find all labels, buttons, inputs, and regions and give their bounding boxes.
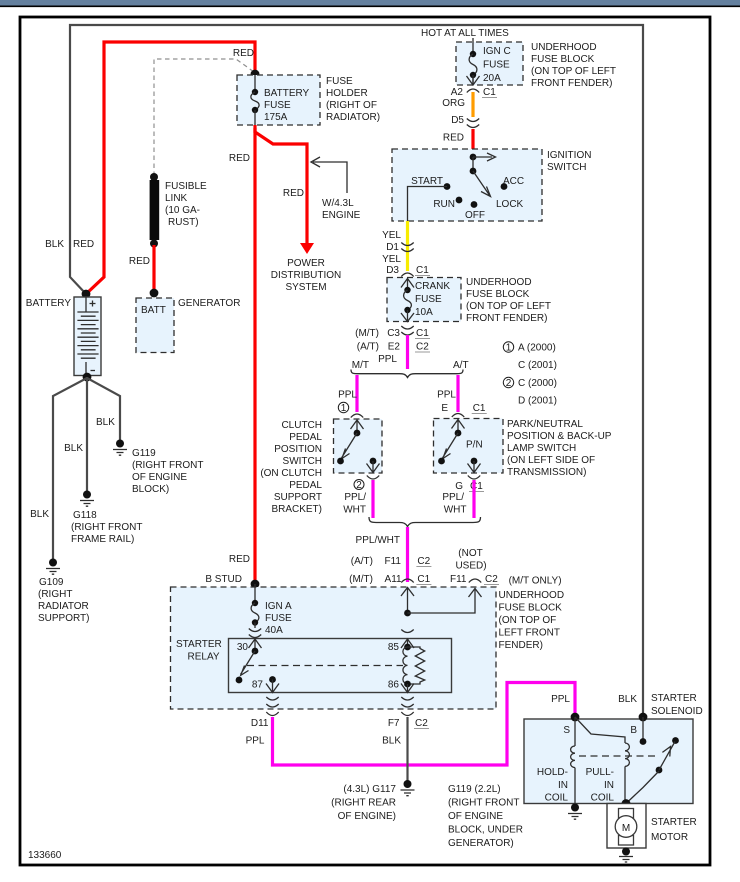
svg-text:PPL/: PPL/: [442, 492, 464, 503]
node OFF contact: [471, 201, 478, 208]
arrow to power distribution system: [300, 243, 314, 254]
fuse IGN A FUSE 40A: [251, 584, 259, 628]
wire S to pull-in coil: [575, 717, 625, 743]
svg-text:PPL: PPL: [246, 736, 265, 747]
node motor feed junction: [622, 799, 631, 808]
svg-text:B: B: [630, 725, 637, 736]
wire dashed unfused link to fuse holder: [154, 59, 254, 176]
wire PPL/WHT merged: [406, 527, 409, 582]
fuse BATTERY FUSE 175A: [251, 75, 259, 125]
svg-text:C (2000): C (2000): [518, 378, 557, 389]
ignition switch box: [392, 149, 542, 221]
svg-text:(A/T): (A/T): [351, 556, 373, 567]
svg-text:COIL: COIL: [591, 793, 615, 804]
svg-text:FUSE BLOCK: FUSE BLOCK: [466, 289, 530, 300]
svg-text:133660: 133660: [28, 850, 62, 861]
svg-text:(ON CLUTCH: (ON CLUTCH: [260, 468, 322, 479]
node generator BATT terminal: [150, 289, 159, 298]
svg-text:C1: C1: [473, 403, 486, 414]
fuse CRANK FUSE 10A: [404, 287, 412, 321]
svg-text:(RIGHT OF: (RIGHT OF: [326, 100, 377, 111]
node clutch output contact: [370, 458, 377, 465]
svg-text:PEDAL: PEDAL: [289, 480, 322, 491]
pin arrow into switch: [351, 420, 364, 433]
svg-text:BLK: BLK: [30, 509, 49, 520]
connector to pin 85: [401, 630, 413, 633]
wire PPL crank fuse to split: [406, 335, 409, 369]
svg-text:PPL/: PPL/: [344, 492, 366, 503]
svg-text:POSITION & BACK-UP: POSITION & BACK-UP: [507, 431, 612, 442]
svg-text:LAMP SWITCH: LAMP SWITCH: [507, 443, 576, 454]
svg-text:PPL: PPL: [338, 390, 357, 401]
svg-text:YEL: YEL: [382, 230, 401, 241]
svg-text:F7: F7: [388, 718, 400, 729]
connector C1 pin G: [468, 476, 480, 480]
node ACC contact: [501, 183, 508, 190]
svg-text:RED: RED: [283, 188, 304, 199]
svg-text:START: START: [411, 176, 443, 187]
svg-text:D11: D11: [251, 718, 269, 729]
wire RED branch to power distribution: [255, 128, 307, 243]
svg-text:(NOT: (NOT: [458, 548, 482, 559]
svg-text:D5: D5: [451, 115, 464, 126]
svg-text:STARTER: STARTER: [176, 639, 222, 650]
svg-text:G119: G119: [132, 448, 156, 459]
svg-text:FUSIBLE: FUSIBLE: [165, 181, 207, 192]
svg-text:FRONT FENDER): FRONT FENDER): [531, 78, 612, 89]
svg-text:FUSE: FUSE: [264, 100, 291, 111]
svg-text:DISTRIBUTION: DISTRIBUTION: [271, 270, 342, 281]
svg-text:(ON TOP OF LEFT: (ON TOP OF LEFT: [466, 301, 551, 312]
connector clutch switch input: [351, 414, 363, 418]
svg-text:30: 30: [237, 642, 249, 653]
wire PPL/WHT pn output: [472, 480, 475, 518]
svg-text:IN: IN: [558, 780, 568, 791]
wire RED to ignition switch: [471, 129, 474, 157]
svg-text:1: 1: [506, 343, 512, 354]
svg-text:RED: RED: [443, 133, 464, 144]
connector pin 87 to D11: [266, 697, 278, 707]
ground G119 (right front of engine block): [113, 440, 127, 456]
svg-text:BATT: BATT: [141, 305, 166, 316]
node solenoid S terminal: [571, 713, 580, 722]
svg-text:B STUD: B STUD: [205, 574, 242, 585]
svg-text:ORG: ORG: [442, 98, 465, 109]
note list (model years): [503, 342, 557, 407]
svg-text:OFF: OFF: [465, 210, 485, 221]
svg-text:RADIATOR: RADIATOR: [38, 601, 89, 612]
node battery fuse input: [251, 70, 260, 79]
svg-text:IGNITION: IGNITION: [547, 150, 591, 161]
svg-text:A2: A2: [451, 87, 464, 98]
svg-text:FUSE: FUSE: [415, 294, 442, 305]
svg-text:COIL: COIL: [545, 793, 569, 804]
svg-text:ENGINE: ENGINE: [322, 210, 361, 221]
svg-text:MOTOR: MOTOR: [651, 832, 688, 843]
svg-text:HOLDER: HOLDER: [326, 88, 368, 99]
relay coil resistor: [408, 647, 425, 684]
switch blade: [342, 433, 358, 459]
pin arrow out of fuse block: [467, 75, 480, 85]
fuse holder box (right of radiator): [237, 75, 320, 125]
svg-text:FUSE: FUSE: [326, 76, 353, 87]
svg-text:UNDERHOOD: UNDERHOOD: [499, 590, 565, 601]
svg-text:C2: C2: [485, 574, 498, 585]
svg-text:BLK: BLK: [96, 417, 115, 428]
svg-text:P/N: P/N: [466, 440, 483, 451]
svg-text:1: 1: [341, 403, 347, 414]
wire ORG: [471, 92, 474, 117]
svg-text:RUN: RUN: [433, 199, 455, 210]
svg-text:SWITCH: SWITCH: [283, 456, 322, 467]
svg-text:LOCK: LOCK: [496, 199, 524, 210]
svg-text:A/T: A/T: [453, 360, 469, 371]
svg-text:PARK/NEUTRAL: PARK/NEUTRAL: [507, 419, 583, 430]
svg-text:(RIGHT FRONT: (RIGHT FRONT: [71, 522, 142, 533]
svg-text:(ON TOP OF: (ON TOP OF: [499, 615, 557, 626]
arrow accessory feed: [473, 153, 496, 161]
svg-text:CRANK: CRANK: [415, 281, 450, 292]
pull-in coil: [625, 743, 629, 766]
svg-text:87: 87: [252, 680, 264, 691]
wire RED fusible link to generator: [152, 245, 155, 292]
ground G109 (right radiator support): [46, 559, 60, 575]
svg-text:E: E: [441, 403, 448, 414]
node battery negative: [83, 373, 92, 382]
ground hold-in coil: [568, 804, 582, 820]
connector pin 86 to F7: [401, 697, 413, 707]
node pn switch common: [455, 430, 462, 437]
connector fuse to relay pin 30: [249, 629, 261, 638]
svg-text:FUSE: FUSE: [483, 60, 510, 71]
svg-text:(RIGHT FRONT: (RIGHT FRONT: [448, 798, 519, 809]
hold-in coil: [571, 746, 575, 768]
node clutch switch common: [354, 430, 361, 437]
svg-text:UNDERHOOD: UNDERHOOD: [466, 277, 532, 288]
starter motor: [607, 804, 646, 849]
svg-text:STARTER: STARTER: [651, 817, 697, 828]
svg-text:IGN A: IGN A: [265, 601, 292, 612]
connector D5 (in-line): [467, 119, 479, 128]
svg-text:PPL: PPL: [437, 390, 456, 401]
starter solenoid box: [524, 719, 693, 804]
node START contact: [444, 183, 451, 190]
svg-text:175A: 175A: [264, 112, 288, 123]
wire BLK battery positive to solenoid B (top loop): [70, 25, 643, 716]
svg-text:POWER: POWER: [287, 258, 325, 269]
merge bracket: [369, 517, 481, 527]
svg-text:BLK: BLK: [618, 694, 637, 705]
svg-text:C1: C1: [416, 328, 429, 339]
svg-text:STARTER: STARTER: [651, 693, 697, 704]
svg-text:GENERATOR: GENERATOR: [178, 298, 240, 309]
svg-text:BLOCK, UNDER: BLOCK, UNDER: [448, 825, 523, 836]
svg-text:2: 2: [506, 378, 512, 389]
node clutch NC contact: [337, 458, 344, 465]
svg-text:FENDER): FENDER): [499, 640, 543, 651]
wire BLK battery negative to G118: [86, 377, 88, 491]
svg-text:FUSE BLOCK: FUSE BLOCK: [499, 603, 563, 614]
svg-text:40A: 40A: [265, 625, 283, 636]
svg-text:GENERATOR): GENERATOR): [448, 838, 514, 849]
svg-text:S: S: [563, 725, 570, 736]
svg-text:RED: RED: [229, 153, 250, 164]
svg-text:PULL-: PULL-: [586, 767, 614, 778]
node solenoid B terminal: [639, 713, 648, 722]
svg-text:F11: F11: [385, 556, 402, 567]
svg-text:(M/T): (M/T): [355, 328, 379, 339]
svg-text:FRAME RAIL): FRAME RAIL): [71, 534, 134, 545]
svg-text:WHT: WHT: [343, 505, 366, 516]
split bracket M/T - A/T: [351, 370, 463, 378]
ground G118 (right front frame rail): [80, 491, 94, 507]
svg-text:YEL: YEL: [382, 254, 401, 265]
svg-text:SUPPORT): SUPPORT): [38, 613, 90, 624]
svg-text:C2: C2: [415, 718, 428, 729]
svg-text:C1: C1: [483, 87, 496, 98]
svg-text:(ON LEFT SIDE OF: (ON LEFT SIDE OF: [507, 455, 595, 466]
svg-text:SYSTEM: SYSTEM: [285, 282, 326, 293]
svg-text:SWITCH: SWITCH: [547, 162, 586, 173]
note 2 marker: [354, 480, 364, 490]
relay blade 30-87: [241, 651, 256, 675]
wire BLK battery negative to G109: [53, 378, 87, 560]
fusible link (10 GA-RUST): [150, 180, 160, 240]
svg-text:WHT: WHT: [444, 505, 467, 516]
wire RED fuse to B STUD: [253, 125, 256, 583]
svg-text:F11: F11: [450, 574, 467, 585]
svg-text:PPL: PPL: [378, 354, 397, 365]
wire to not-used F11/C2: [408, 589, 476, 613]
svg-text:BLOCK): BLOCK): [132, 484, 169, 495]
svg-text:G118: G118: [73, 510, 97, 521]
svg-text:RADIATOR): RADIATOR): [326, 112, 380, 123]
svg-text:HOLD-: HOLD-: [537, 767, 568, 778]
svg-text:(M/T): (M/T): [349, 574, 373, 585]
svg-text:C2: C2: [416, 342, 429, 353]
ground starter motor: [619, 848, 633, 863]
underhood fuse block box (CRANK): [387, 278, 461, 322]
svg-text:POSITION: POSITION: [274, 444, 322, 455]
svg-text:RED: RED: [229, 554, 250, 565]
connector clutch switch output: [367, 476, 379, 480]
node pn NC contact: [438, 458, 445, 465]
wire B terminal stub: [642, 717, 644, 741]
svg-text:(M/T ONLY): (M/T ONLY): [509, 576, 562, 587]
svg-text:RELAY: RELAY: [188, 652, 220, 663]
fuse IGN C FUSE 20A: [469, 42, 477, 84]
svg-text:(ON TOP OF LEFT: (ON TOP OF LEFT: [531, 66, 616, 77]
svg-text:C2: C2: [417, 556, 430, 567]
solenoid contacts: [672, 737, 679, 744]
underhood fuse block box (IGN C): [456, 42, 523, 85]
svg-text:UNDERHOOD: UNDERHOOD: [531, 42, 597, 53]
connector D1 (in-line): [401, 243, 413, 252]
svg-text:RED: RED: [233, 48, 254, 59]
generator G1: [136, 298, 174, 353]
svg-text:M/T: M/T: [352, 360, 369, 371]
svg-text:C1: C1: [470, 481, 483, 492]
node relay coil feed junction: [404, 610, 411, 617]
svg-text:FRONT FENDER): FRONT FENDER): [466, 313, 547, 324]
svg-text:LEFT FRONT: LEFT FRONT: [499, 628, 560, 639]
svg-text:BATTERY: BATTERY: [26, 298, 72, 309]
underhood fuse block box (starter relay): [171, 587, 497, 709]
svg-text:85: 85: [388, 642, 400, 653]
svg-text:M: M: [622, 823, 630, 834]
svg-text:CLUTCH: CLUTCH: [281, 420, 322, 431]
svg-text:E2: E2: [388, 342, 401, 353]
svg-text:TRANSMISSION): TRANSMISSION): [507, 467, 586, 478]
svg-text:W/4.3L: W/4.3L: [322, 198, 354, 209]
wire BLK battery negative to G119: [87, 378, 120, 441]
svg-text:G109: G109: [39, 577, 64, 588]
svg-text:SOLENOID: SOLENOID: [651, 706, 703, 717]
park/neutral position switch box: [434, 419, 504, 474]
switch blade: [443, 433, 459, 459]
svg-text:BLK: BLK: [64, 443, 83, 454]
svg-text:D (2001): D (2001): [518, 396, 557, 407]
svg-text:86: 86: [388, 680, 400, 691]
svg-text:(RIGHT REAR: (RIGHT REAR: [331, 798, 396, 809]
wire PPL relay to solenoid S: [273, 683, 576, 766]
svg-text:A (2000): A (2000): [518, 343, 556, 354]
wire PPL A/T branch: [456, 375, 459, 412]
wire PPL M/T branch: [355, 375, 358, 412]
svg-text:A11: A11: [385, 574, 402, 585]
svg-text:RUST): RUST): [168, 217, 199, 228]
wire START output: [408, 187, 448, 222]
svg-text:FUSE BLOCK: FUSE BLOCK: [531, 54, 595, 65]
svg-text:(RIGHT FRONT: (RIGHT FRONT: [132, 460, 203, 471]
svg-text:SUPPORT: SUPPORT: [274, 492, 322, 503]
svg-text:BATTERY: BATTERY: [264, 88, 310, 99]
connector F11/C2 (not used): [469, 579, 481, 583]
svg-text:10A: 10A: [415, 307, 433, 318]
svg-text:BLK: BLK: [382, 736, 401, 747]
svg-text:OF ENGINE: OF ENGINE: [132, 472, 187, 483]
svg-text:RED: RED: [129, 256, 150, 267]
svg-text:C3: C3: [387, 328, 400, 339]
connector C1 crank fuse input: [401, 273, 413, 277]
svg-text:20A: 20A: [483, 73, 501, 84]
callout W/4.3L ENGINE: [311, 157, 361, 221]
wire BLK relay 86 to ground: [406, 717, 408, 781]
svg-text:BRACKET): BRACKET): [271, 504, 322, 515]
svg-text:ACC: ACC: [503, 176, 524, 187]
svg-text:IN: IN: [604, 780, 614, 791]
svg-text:PEDAL: PEDAL: [289, 432, 322, 443]
svg-text:G119 (2.2L): G119 (2.2L): [448, 784, 501, 795]
svg-text:OF ENGINE): OF ENGINE): [338, 811, 396, 822]
svg-text:C1: C1: [417, 574, 430, 585]
svg-text:BLK: BLK: [45, 239, 64, 250]
svg-text:D3: D3: [386, 265, 399, 276]
pin arrow into fuse block: [401, 279, 414, 291]
note 1 marker: [338, 402, 348, 412]
wire contact to motor junction: [627, 771, 660, 803]
svg-text:(A/T): (A/T): [357, 342, 379, 353]
connector C1/C2 crank fuse output: [401, 326, 413, 335]
clutch pedal position switch box: [334, 419, 383, 473]
ground G117/G119: [401, 780, 415, 796]
node RUN contact: [456, 197, 463, 204]
svg-text:2: 2: [356, 480, 362, 491]
svg-text:RED: RED: [73, 239, 94, 250]
svg-text:HOT AT ALL TIMES: HOT AT ALL TIMES: [421, 28, 509, 39]
switch blade to LOCK: [473, 171, 491, 197]
wire YEL ignition to D1: [406, 221, 409, 271]
svg-text:PPL: PPL: [551, 694, 570, 705]
node battery positive: [82, 290, 91, 299]
connector C1 pin A2: [467, 89, 479, 93]
svg-text:LINK: LINK: [165, 193, 188, 204]
connector A11 input: [401, 579, 413, 583]
starter relay box: [229, 639, 452, 693]
svg-text:OF ENGINE: OF ENGINE: [448, 811, 503, 822]
svg-text:IGN C: IGN C: [483, 46, 511, 57]
svg-text:FUSE: FUSE: [265, 613, 292, 624]
svg-text:(4.3L) G117: (4.3L) G117: [343, 784, 396, 795]
svg-text:D1: D1: [386, 242, 399, 253]
wire RED battery positive to battery fuse: [86, 42, 255, 294]
svg-text:G: G: [455, 481, 463, 492]
pin arrow into switch: [452, 420, 465, 434]
node relay NC: [236, 677, 243, 684]
svg-text:(RIGHT: (RIGHT: [38, 589, 72, 600]
svg-text:C1: C1: [416, 265, 429, 276]
solenoid linkage (dashed): [579, 755, 655, 757]
svg-text:C (2001): C (2001): [518, 360, 557, 371]
node fusible link top: [150, 173, 158, 181]
relay coil: [403, 647, 408, 684]
svg-text:PPL/WHT: PPL/WHT: [356, 535, 400, 546]
svg-text:(10 GA-: (10 GA-: [165, 205, 200, 216]
wire S to hold-in coil: [574, 717, 576, 746]
svg-text:USED): USED): [455, 561, 486, 572]
relay linkage (dashed): [247, 665, 403, 667]
node ignition feed junction: [470, 154, 477, 161]
wire PPL/WHT clutch output: [371, 480, 374, 518]
top window bar: [0, 0, 740, 6]
